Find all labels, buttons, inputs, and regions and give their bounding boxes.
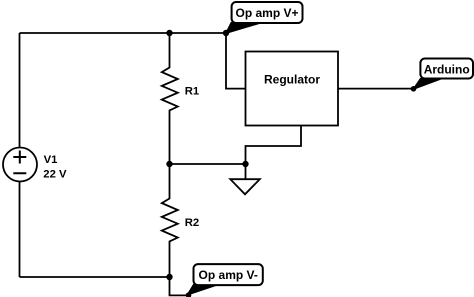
node junction (ground / regulator bottom) — [242, 161, 248, 167]
wire regulator output to Arduino flag — [338, 88, 414, 90]
wire divider midpoint to ground node — [170, 163, 246, 165]
svg-text:Op amp V+: Op amp V+ — [235, 6, 298, 20]
svg-text:V1: V1 — [44, 154, 58, 166]
wire regulator bottom pin to ground node — [246, 126, 302, 165]
svg-text:R1: R1 — [185, 85, 199, 97]
flag Op amp V+ — [226, 2, 303, 33]
wire top horizontal — [20, 32, 227, 34]
ground — [230, 164, 259, 194]
node Op amp V+ attach — [223, 30, 229, 36]
wire bottom horizontal — [20, 276, 170, 278]
flag Arduino — [414, 59, 474, 90]
svg-text:Arduino: Arduino — [424, 62, 470, 76]
resistor R1 — [162, 33, 199, 164]
svg-text:22 V: 22 V — [43, 168, 67, 180]
svg-text:Regulator: Regulator — [264, 72, 320, 86]
wire left upper (to V1 top) — [19, 33, 21, 148]
wire Op amp V+ branch (down to regulator input) — [226, 33, 246, 89]
voltage source V1 — [3, 148, 67, 182]
node junction (divider midpoint) — [166, 161, 172, 167]
node Arduino attach — [411, 86, 417, 92]
svg-text:Op amp V-: Op amp V- — [199, 268, 258, 282]
flag Op amp V- — [188, 264, 263, 295]
wire bottom flag stub — [170, 277, 190, 295]
node junction (R2 bottom / bottom rail) — [166, 274, 172, 280]
resistor R2 — [162, 164, 199, 277]
svg-text:R2: R2 — [185, 217, 199, 229]
node Op amp V- attach — [186, 292, 192, 297]
regulator U1 — [246, 52, 339, 126]
wire left lower (V1 bottom to bottom rail) — [19, 182, 21, 278]
node junction (R1 top / top rail) — [166, 30, 172, 36]
